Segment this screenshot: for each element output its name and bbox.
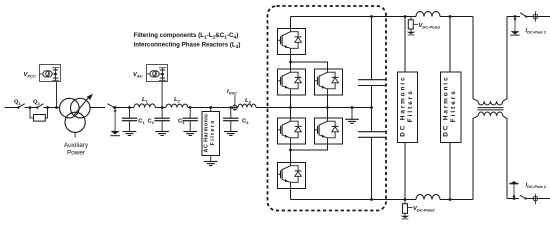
- svg-text:Filters: Filters: [450, 89, 457, 122]
- DC reactor (coupled): [473, 17, 507, 200]
- svg-text:IDC-Pole 1: IDC-Pole 1: [526, 28, 547, 34]
- wire: bus S1-S2: [290, 55, 292, 70]
- svg-text:DC Harmonic: DC Harmonic: [442, 75, 449, 136]
- IGBT module S6: [278, 163, 306, 189]
- svg-text:L2: L2: [174, 97, 181, 103]
- wire bottom rail cont: [440, 199, 473, 201]
- svg-text:Q1: Q1: [14, 100, 22, 106]
- node C1: [128, 106, 131, 109]
- node DC cap bottom: [370, 198, 373, 201]
- node DC cap mid: [370, 106, 373, 109]
- node filter2 top: [449, 15, 452, 18]
- svg-text:Filters: Filters: [210, 119, 216, 145]
- svg-text:C4: C4: [242, 119, 249, 125]
- node V_PCC tap: [55, 106, 58, 109]
- DC Harmonic Filters box 2: [441, 17, 462, 200]
- node filter1 top: [404, 15, 407, 18]
- wire: left bus mid: [290, 95, 292, 118]
- node C4: [229, 106, 232, 109]
- IGBT module S1: [278, 29, 306, 55]
- node filter2 bottom: [449, 198, 452, 201]
- node electrode pole1: [514, 15, 517, 18]
- wire: lower cross to right leg: [291, 144, 328, 150]
- earth electrode pole2 (up): [509, 181, 518, 199]
- svg-text:VPCC: VPCC: [24, 72, 36, 79]
- voltage divider V_DC-Pole2: [401, 200, 436, 219]
- node electrode pole2: [513, 197, 516, 200]
- capacitor DC link lower: [358, 108, 385, 200]
- node after Q1: [29, 106, 32, 109]
- node C2 / V_AC tap: [161, 106, 164, 109]
- IGBT module S3: [315, 69, 343, 95]
- svg-text:Auxiliary: Auxiliary: [64, 142, 89, 149]
- earth electrode pole1: [510, 17, 519, 36]
- wire node to L3: [231, 107, 238, 109]
- svg-text:VDC-Pole1: VDC-Pole1: [419, 23, 441, 29]
- node right midpoint: [326, 106, 329, 109]
- wire L2 to AC filter node: [188, 107, 231, 109]
- wire to C1 and L1: [115, 107, 134, 109]
- breaker Q2: [30, 100, 48, 109]
- svg-text:C2: C2: [148, 119, 155, 125]
- current measurement I_VSC: [227, 89, 237, 111]
- inductor L1: [134, 104, 155, 108]
- svg-text:L1: L1: [142, 97, 149, 103]
- ground: DC midpoint: [345, 106, 359, 123]
- svg-text:C3: C3: [178, 119, 185, 125]
- node DC cap top: [370, 15, 373, 18]
- node filter1 bottom: [404, 198, 407, 201]
- wire: midline to DC link: [291, 107, 372, 109]
- svg-text:DC Harmonic: DC Harmonic: [399, 75, 406, 136]
- node left midpoint: [289, 106, 292, 109]
- breaker (converter breaker): [108, 104, 116, 109]
- wire L1 to node: [155, 107, 166, 109]
- inductor L3: [238, 104, 256, 107]
- svg-text:Filters: Filters: [407, 89, 414, 122]
- wire: V_PCC drop: [56, 82, 58, 108]
- voltage transformer V_PCC: [40, 65, 61, 82]
- node / surge arrester branch: [110, 106, 120, 136]
- wire: left bus bottom: [290, 189, 292, 200]
- svg-text:L3: L3: [245, 98, 252, 104]
- node C3: [189, 106, 192, 109]
- inductor L2: [166, 104, 188, 107]
- svg-text:C1: C1: [138, 119, 145, 125]
- voltage transformer V_AC: [147, 65, 168, 82]
- IGBT module S2: [278, 69, 306, 95]
- svg-text:Power: Power: [67, 150, 86, 157]
- AC Harmonic Filters box: [202, 108, 220, 166]
- wire: V_AC drop: [161, 82, 163, 108]
- resistor (pre-insertion, parallel with Q2): [30, 108, 48, 122]
- svg-text:IVSC: IVSC: [227, 89, 237, 96]
- IGBT module S4: [278, 118, 306, 144]
- breaker Q1: [14, 100, 30, 109]
- disconnector pole1: [520, 13, 526, 17]
- node AC harmonic filter tap: [209, 106, 212, 109]
- wire: right bus mid: [327, 95, 329, 118]
- DC Harmonic Filters box 1: [398, 17, 418, 200]
- IGBT module S5: [315, 118, 343, 144]
- capacitor C3: [183, 108, 198, 136]
- wire: pole2 exit rail: [507, 198, 519, 200]
- capacitor DC link upper: [358, 17, 385, 108]
- capacitor C2: [154, 108, 169, 136]
- capacitor C4: [223, 108, 238, 136]
- node after Q2: [46, 106, 49, 109]
- wire: left bus top: [290, 17, 292, 29]
- smoothing reactor top: [416, 12, 440, 17]
- wire + current transducer I_DC-Pole2: [526, 183, 550, 205]
- svg-text:Q2: Q2: [33, 100, 41, 106]
- wire transformer to breaker: [90, 107, 105, 109]
- node lower cross: [289, 149, 292, 152]
- wire: upper cross to right leg: [291, 62, 328, 69]
- wire + current transducer I_DC-Pole1: [526, 11, 550, 34]
- wire: left bus lower: [290, 144, 292, 163]
- svg-text:AC Harmonic: AC Harmonic: [203, 113, 209, 152]
- smoothing reactor bottom: [416, 195, 440, 200]
- wire: pole1 exit rail: [507, 16, 520, 18]
- wire: DC bottom rail: [291, 199, 417, 201]
- capacitor C1: [122, 108, 137, 136]
- wire: AC line entry: [5, 107, 19, 109]
- svg-text:IDC-Pole 2: IDC-Pole 2: [526, 183, 547, 189]
- disconnector pole2: [520, 195, 526, 198]
- wire Q2 to transformer: [48, 107, 61, 109]
- wire L3 into converter: [256, 107, 291, 109]
- voltage divider V_DC-Pole1: [407, 17, 441, 35]
- node upper cross: [289, 61, 292, 64]
- transformer (3-winding) with tap changer arrow: [60, 94, 93, 138]
- wire: DC top rail: [291, 16, 417, 18]
- svg-text:VDC-Pole2: VDC-Pole2: [413, 206, 435, 212]
- wire top rail cont: [440, 16, 473, 18]
- converter dashed enclosure: [268, 6, 387, 211]
- svg-text:VAC: VAC: [133, 72, 143, 79]
